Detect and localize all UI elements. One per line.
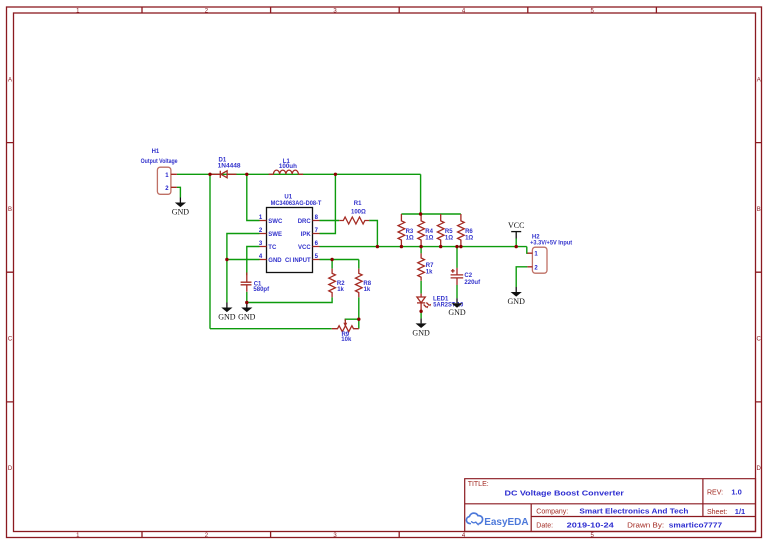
svg-text:Company:: Company: bbox=[536, 508, 568, 515]
wire LED1 to ground bbox=[420, 311, 422, 318]
value 10k bbox=[341, 337, 352, 343]
value R6 1ohm bbox=[465, 236, 473, 242]
pin name SWC bbox=[268, 219, 283, 225]
svg-text:R6: R6 bbox=[465, 229, 473, 235]
pin name VCC bbox=[298, 245, 311, 251]
pin number 2 bbox=[259, 228, 263, 234]
label C2 bbox=[464, 273, 472, 279]
ground LED1 bbox=[412, 318, 430, 337]
wire R8 bottom to wiper node bbox=[345, 297, 359, 321]
wire rail drop to resistor bus bbox=[420, 174, 422, 214]
junction pin5 at R2 bbox=[330, 258, 333, 261]
svg-text:smartico7777: smartico7777 bbox=[669, 520, 722, 529]
wire R8 top bbox=[358, 260, 360, 269]
wire wiper node to R9 right terminal bbox=[358, 319, 360, 329]
wire resistor bus top bbox=[401, 213, 461, 215]
junction wiper node bbox=[357, 318, 360, 321]
svg-text:Drawn By:: Drawn By: bbox=[627, 522, 664, 529]
svg-text:2019-10-24: 2019-10-24 bbox=[567, 520, 615, 529]
value R4 1ohm bbox=[425, 236, 433, 242]
inductor L1 bbox=[269, 170, 303, 174]
pin name DRC bbox=[298, 219, 312, 225]
value R3 1ohm bbox=[406, 236, 414, 242]
ground H2 bbox=[508, 287, 526, 306]
svg-text:Smart Electronics And Tech: Smart Electronics And Tech bbox=[579, 506, 688, 515]
resistor R1 bbox=[339, 217, 369, 224]
svg-text:CI INPUT: CI INPUT bbox=[285, 258, 311, 264]
svg-text:R3: R3 bbox=[406, 229, 414, 235]
wire VCC rail to H2 pin 1 bbox=[527, 247, 528, 254]
svg-text:C: C bbox=[8, 337, 13, 343]
junction LED cathode bbox=[419, 310, 422, 313]
capacitor C2 polarized bbox=[451, 268, 464, 285]
diode D1 bbox=[211, 171, 236, 178]
junction C1 bottom bbox=[245, 301, 248, 304]
svg-text:1Ω: 1Ω bbox=[406, 236, 414, 242]
ground H1 bbox=[172, 198, 190, 217]
wire H2 pin 2 to ground bbox=[516, 267, 527, 287]
svg-text:B: B bbox=[8, 207, 12, 213]
svg-text:R5: R5 bbox=[445, 229, 453, 235]
pin name GND bbox=[268, 258, 282, 264]
wire DRC pin 8 to R1 bbox=[320, 220, 340, 222]
junction VCC rail at R5 bbox=[439, 245, 442, 248]
label C1 bbox=[254, 281, 262, 287]
svg-text:100Ω: 100Ω bbox=[351, 210, 366, 216]
svg-text:A: A bbox=[8, 77, 12, 83]
label R5 bbox=[445, 229, 453, 235]
ground left pair 2 bbox=[238, 303, 256, 322]
wire main rail VIN bbox=[177, 173, 421, 175]
wire C2 bottom to ground bbox=[456, 285, 458, 298]
svg-text:GND: GND bbox=[268, 258, 282, 264]
pin number 8 bbox=[315, 215, 319, 221]
svg-text:A: A bbox=[757, 77, 761, 83]
svg-text:MC34063AG-D08-T: MC34063AG-D08-T bbox=[271, 201, 322, 207]
value R2 1k bbox=[337, 287, 344, 293]
svg-text:Output Voltage: Output Voltage bbox=[141, 159, 179, 165]
svg-text:R4: R4 bbox=[425, 229, 433, 235]
svg-text:D: D bbox=[8, 466, 13, 472]
svg-text:D: D bbox=[757, 466, 762, 472]
svg-text:1Ω: 1Ω bbox=[445, 236, 453, 242]
wire R2 bottom to C1 node bbox=[247, 297, 332, 302]
svg-text:LED1: LED1 bbox=[433, 296, 449, 302]
svg-text:10k: 10k bbox=[341, 337, 352, 343]
svg-text:REV:: REV: bbox=[707, 489, 723, 496]
svg-text:DC Voltage Boost Converter: DC Voltage Boost Converter bbox=[505, 488, 624, 497]
pin number H2-2 bbox=[534, 265, 538, 271]
pin number 1 bbox=[259, 215, 263, 221]
potentiometer R9 bbox=[332, 319, 359, 332]
TITLEBLOCK bbox=[465, 479, 756, 532]
resistor R7 bbox=[418, 253, 425, 280]
label R9 bbox=[341, 332, 349, 338]
value 100ohm bbox=[351, 210, 366, 216]
wire pin 5 comparator node bbox=[320, 259, 359, 261]
wire VCC rail bbox=[320, 246, 527, 248]
pin number H2-1 bbox=[534, 252, 538, 258]
wire R2 top bbox=[331, 260, 333, 269]
wire R7 top bbox=[420, 247, 422, 254]
value R5 1ohm bbox=[445, 236, 453, 242]
junction VCC rail at R6 bbox=[459, 245, 462, 248]
svg-text:H1: H1 bbox=[152, 149, 160, 155]
wire GND pin 4 bbox=[227, 259, 260, 261]
pin name SWE bbox=[268, 232, 282, 238]
wire R7 to LED1 bbox=[420, 281, 422, 294]
value MC34063AG-D08-T bbox=[271, 201, 322, 207]
value R8 1k bbox=[364, 287, 371, 293]
resistor R3 bbox=[398, 214, 405, 247]
junction rail at feedback drop bbox=[208, 173, 211, 176]
capacitor C1 bbox=[241, 273, 252, 292]
resistor R5 bbox=[437, 214, 444, 247]
label R2 bbox=[337, 281, 345, 287]
svg-text:1k: 1k bbox=[337, 287, 344, 293]
label R4 bbox=[425, 229, 433, 235]
value 580pf bbox=[253, 287, 270, 293]
svg-text:100uh: 100uh bbox=[279, 164, 297, 170]
svg-text:C: C bbox=[757, 337, 762, 343]
svg-text:1k: 1k bbox=[426, 269, 433, 275]
junction VCC rail at flag bbox=[515, 245, 518, 248]
label U1 bbox=[284, 194, 292, 200]
label R1 bbox=[354, 201, 362, 207]
wire C2 top bbox=[456, 247, 458, 268]
wire IPK riser pin 7 to rail bbox=[320, 174, 336, 233]
value 5AR2ST-10 bbox=[433, 303, 464, 309]
svg-text:EasyEDA: EasyEDA bbox=[484, 517, 528, 528]
svg-text:IPK: IPK bbox=[301, 232, 312, 238]
op-amp U1 MC34063 box bbox=[260, 208, 320, 273]
ground left pair 1 bbox=[218, 303, 236, 322]
svg-text:Date:: Date: bbox=[536, 522, 553, 529]
svg-text:1k: 1k bbox=[364, 287, 371, 293]
svg-text:580pf: 580pf bbox=[253, 287, 270, 293]
pin number H1-1 bbox=[165, 173, 169, 179]
svg-text:1N4448: 1N4448 bbox=[218, 163, 242, 169]
resistor R2 bbox=[329, 269, 336, 298]
svg-text:1Ω: 1Ω bbox=[465, 236, 473, 242]
value +3.3V/+5V Input bbox=[530, 240, 572, 246]
pin name IPK bbox=[301, 232, 312, 238]
connector H2 bbox=[527, 247, 547, 273]
svg-text:220uf: 220uf bbox=[464, 280, 481, 286]
svg-text:TITLE:: TITLE: bbox=[468, 481, 489, 488]
value R7 1k bbox=[426, 269, 433, 275]
svg-text:B: B bbox=[757, 207, 761, 213]
svg-text:1/1: 1/1 bbox=[735, 507, 745, 516]
label D1 bbox=[219, 157, 227, 163]
pin number 6 bbox=[315, 241, 319, 247]
LED LED1 bbox=[417, 294, 431, 312]
svg-text:VCC: VCC bbox=[298, 245, 311, 251]
value Output Voltage bbox=[141, 159, 179, 165]
resistor R8 bbox=[355, 269, 362, 298]
value 1N4448 bbox=[218, 163, 242, 169]
pin number 3 bbox=[259, 241, 263, 247]
ground C2 bbox=[448, 298, 466, 317]
label R7 bbox=[426, 263, 434, 269]
svg-text:1.0: 1.0 bbox=[731, 487, 741, 496]
junction rail at SWC riser bbox=[245, 173, 248, 176]
junction rail at IPK riser bbox=[334, 173, 337, 176]
value 220uf bbox=[464, 280, 481, 286]
pin name CI INPUT bbox=[285, 258, 311, 264]
wire feedback bottom run bbox=[210, 328, 332, 330]
label R8 bbox=[363, 281, 371, 287]
svg-text:R7: R7 bbox=[426, 263, 434, 269]
pin number H1-2 bbox=[165, 186, 169, 192]
svg-text:+3.3V/+5V Input: +3.3V/+5V Input bbox=[530, 240, 572, 246]
junction resistor bus bbox=[419, 212, 422, 215]
label R3 bbox=[406, 229, 414, 235]
wire SWE pin 2 to ground column bbox=[227, 234, 260, 303]
svg-text:U1: U1 bbox=[284, 194, 292, 200]
svg-text:TC: TC bbox=[268, 245, 277, 251]
svg-text:R1: R1 bbox=[354, 201, 362, 207]
wire C1 bottom to ground bbox=[246, 292, 248, 303]
wire VCC flag stub bbox=[515, 239, 517, 247]
junction VCC rail at C2 bbox=[455, 245, 458, 248]
pin number 7 bbox=[315, 228, 319, 234]
pin number 5 bbox=[315, 254, 319, 260]
wire SWC riser to pin 1 bbox=[247, 174, 260, 220]
label L1 bbox=[283, 159, 291, 165]
label H2 bbox=[532, 235, 540, 241]
resistor R4 bbox=[418, 214, 425, 247]
wire left feedback drop bbox=[209, 174, 211, 328]
svg-text:DRC: DRC bbox=[298, 219, 312, 225]
junction VCC rail at R3 bbox=[400, 245, 403, 248]
label H1 bbox=[152, 149, 160, 155]
junction pin4 ground column bbox=[225, 258, 228, 261]
wire H1 pin 2 to ground bbox=[177, 187, 181, 197]
pin name TC bbox=[268, 245, 277, 251]
svg-text:VCC: VCC bbox=[508, 221, 524, 230]
power flag VCC bbox=[508, 221, 524, 239]
value 100uh bbox=[279, 164, 297, 170]
wire R1 to VCC rail bbox=[369, 221, 377, 247]
svg-text:Sheet:: Sheet: bbox=[707, 509, 727, 516]
pin number 4 bbox=[259, 254, 263, 260]
junction VCC rail at R4 bbox=[419, 245, 422, 248]
svg-text:1Ω: 1Ω bbox=[425, 236, 433, 242]
svg-text:C2: C2 bbox=[464, 273, 472, 279]
svg-text:SWE: SWE bbox=[268, 232, 282, 238]
label R6 bbox=[465, 229, 473, 235]
junction VCC rail at R1 bbox=[376, 245, 379, 248]
resistor R6 bbox=[458, 214, 465, 247]
svg-text:SWC: SWC bbox=[268, 219, 283, 225]
label LED1 bbox=[433, 296, 449, 302]
connector H1 bbox=[157, 167, 177, 194]
wire TC pin 3 to C1 bbox=[247, 247, 260, 276]
